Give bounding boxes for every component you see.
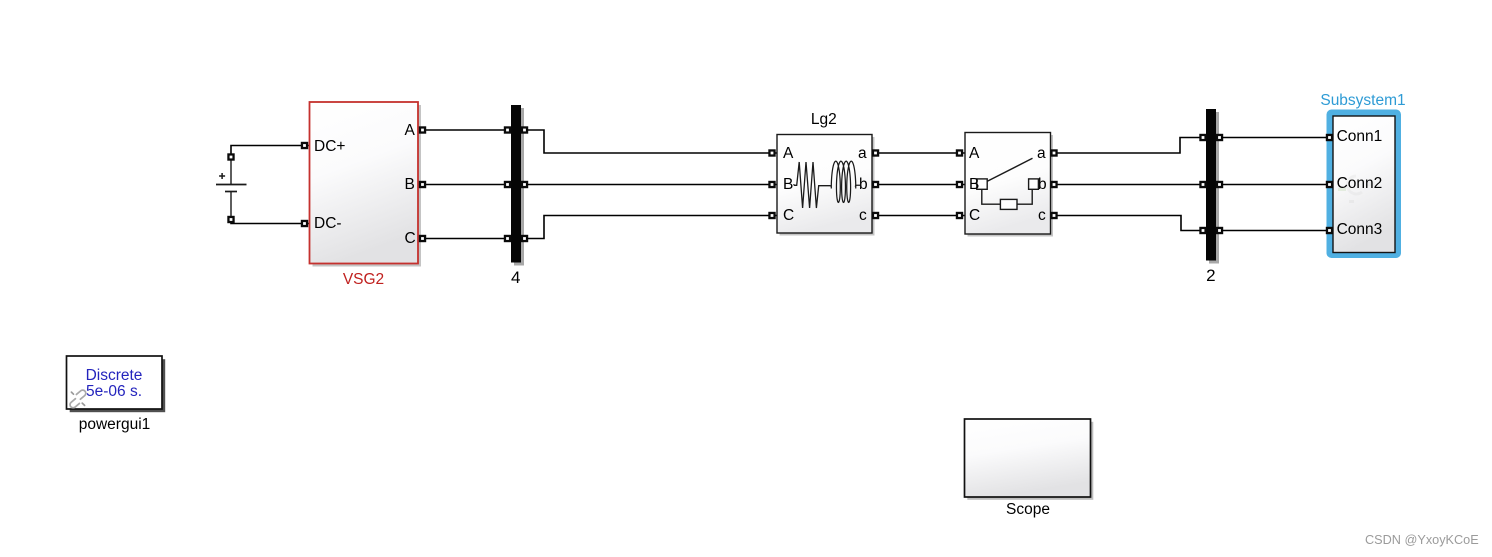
- wire bus2 to Conn3: [1221, 230, 1330, 232]
- Scope block shadow: [967, 422, 1093, 500]
- label Conn2: [1337, 176, 1383, 192]
- port Subsystem1 Conn1: [1326, 134, 1333, 141]
- watermark CSDN: [1365, 534, 1479, 547]
- powergui broken link icon: [69, 389, 87, 409]
- port VSG2 C: [419, 235, 426, 242]
- port battery -: [227, 216, 234, 223]
- breaker icon switch contact: [977, 158, 1039, 189]
- label VSG2 DC+: [314, 139, 345, 155]
- port VSG2 DC-: [301, 220, 308, 227]
- breaker block shadow: [968, 135, 1054, 237]
- label breaker A: [969, 146, 979, 162]
- port bus4 left B: [504, 181, 511, 188]
- label Lg2 a: [858, 146, 867, 162]
- DC voltage source battery: [216, 152, 247, 219]
- block powergui1: [67, 356, 163, 409]
- Lg2 RL branch icon inductor: [831, 161, 861, 202]
- port bus2 right a: [1216, 134, 1223, 141]
- bus bar 2 shadow: [1209, 112, 1219, 264]
- wire battery- to VSG2 DC-: [231, 218, 309, 224]
- label Lg2 c: [859, 208, 867, 224]
- bus bar 4 shadow: [514, 108, 524, 266]
- wire Lg2 c to breaker C: [872, 215, 965, 217]
- bus bar 4: [511, 105, 521, 263]
- port Lg2 C: [768, 212, 775, 219]
- port breaker a: [1050, 149, 1057, 156]
- label Lg2 C: [783, 208, 794, 224]
- label bus2 name: [1206, 267, 1215, 284]
- label powergui sample time: [86, 384, 142, 400]
- port breaker b: [1050, 181, 1057, 188]
- port battery +: [227, 153, 234, 160]
- wire battery+ to VSG2 DC+: [231, 146, 309, 159]
- Lg2 RL branch icon resistor: [794, 162, 831, 208]
- wire VSG2 B to bus4: [422, 184, 506, 186]
- port breaker c: [1050, 212, 1057, 219]
- port bus4 right B: [521, 181, 528, 188]
- block three-phase breaker: [965, 133, 1051, 235]
- wire breaker c to bus2: [1052, 216, 1206, 231]
- label breaker B: [969, 177, 979, 193]
- ghost watermark inside Subsystem1: [1338, 176, 1375, 203]
- port Lg2 b: [872, 181, 879, 188]
- port breaker B: [956, 181, 963, 188]
- label bus4 name: [511, 269, 520, 286]
- port Subsystem1 Conn3: [1326, 227, 1333, 234]
- port bus4 right A: [521, 126, 528, 133]
- Lg2 block shadow: [780, 137, 875, 236]
- wire VSG2 A to bus4: [422, 129, 506, 131]
- label breaker C: [969, 208, 980, 224]
- powergui block shadow: [70, 359, 166, 412]
- port bus2 left a: [1199, 134, 1206, 141]
- label Lg2 name: [811, 112, 837, 128]
- breaker icon snubber: [982, 189, 1032, 209]
- label Lg2 A: [783, 146, 793, 162]
- block Scope: [965, 419, 1091, 497]
- block Subsystem1: [1333, 116, 1395, 253]
- label powergui Discrete: [86, 368, 143, 384]
- label Conn1: [1337, 129, 1383, 145]
- port VSG2 B: [419, 181, 426, 188]
- label Conn3: [1337, 222, 1383, 238]
- port bus2 left b: [1199, 181, 1206, 188]
- port breaker A: [956, 149, 963, 156]
- block Lg2: [777, 135, 872, 234]
- VSG2 block shadow: [313, 105, 422, 267]
- port VSG2 A: [419, 126, 426, 133]
- port Lg2 A: [768, 149, 775, 156]
- wire bus4 to Lg2 B: [526, 184, 777, 186]
- Subsystem1 selection highlight: [1330, 113, 1399, 256]
- port bus4 right C: [521, 235, 528, 242]
- label breaker b: [1038, 177, 1047, 193]
- label VSG2 B: [405, 177, 415, 193]
- label VSG2 DC-: [314, 216, 342, 232]
- wire VSG2 C to bus4: [422, 238, 506, 240]
- port bus2 right b: [1216, 181, 1223, 188]
- port Lg2 B: [768, 181, 775, 188]
- port Lg2 a: [872, 149, 879, 156]
- port VSG2 DC+: [301, 142, 308, 149]
- port Lg2 c: [872, 212, 879, 219]
- label Scope name: [1006, 502, 1050, 518]
- port Subsystem1 Conn2: [1326, 181, 1333, 188]
- label VSG2 A: [405, 123, 415, 139]
- wire bus4 to Lg2 A: [526, 130, 777, 153]
- wire bus2 to Conn1: [1221, 137, 1330, 139]
- wire breaker a to bus2: [1052, 138, 1206, 154]
- wire bus2 to Conn2: [1221, 184, 1330, 186]
- port bus2 left c: [1199, 227, 1206, 234]
- bus bar 2: [1206, 109, 1216, 261]
- label breaker c: [1038, 208, 1046, 224]
- port breaker C: [956, 212, 963, 219]
- port bus4 left C: [504, 235, 511, 242]
- label breaker a: [1037, 146, 1046, 162]
- label Lg2 B: [783, 177, 793, 193]
- label VSG2 name: [343, 272, 384, 288]
- port bus2 right c: [1216, 227, 1223, 234]
- port bus4 left A: [504, 126, 511, 133]
- label Lg2 b: [859, 177, 868, 193]
- wire Lg2 a to breaker A: [872, 152, 965, 154]
- wire Lg2 b to breaker B: [872, 184, 965, 186]
- wire bus4 to Lg2 C: [526, 216, 777, 239]
- block VSG2: [310, 102, 419, 264]
- wire breaker b to bus2: [1052, 184, 1206, 186]
- label powergui1 name: [79, 417, 151, 433]
- label VSG2 C: [405, 231, 416, 247]
- label Subsystem1 name: [1320, 93, 1405, 109]
